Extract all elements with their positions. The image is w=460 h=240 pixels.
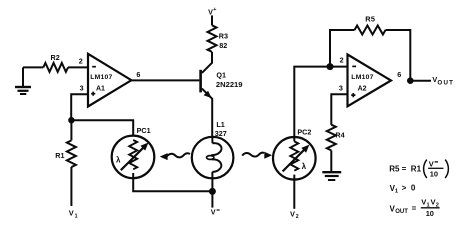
svg-text:A2: A2 <box>358 85 367 92</box>
svg-text:LM107: LM107 <box>351 74 373 81</box>
wire node to PC1 top <box>71 120 133 140</box>
svg-text:V: V <box>211 207 216 216</box>
svg-text:10: 10 <box>430 170 438 179</box>
node junction R1 / PC1 / A1 pin3 <box>68 117 74 123</box>
wire lamp bottom to V- <box>211 178 213 207</box>
op-amp U2 A2 <box>339 55 401 107</box>
svg-text:2: 2 <box>340 56 344 65</box>
svg-text:V: V <box>69 209 74 218</box>
equations <box>389 159 448 217</box>
wire node to R1 <box>70 120 72 140</box>
svg-text:327: 327 <box>215 129 227 138</box>
svg-text:OUT: OUT <box>437 79 454 86</box>
svg-text:λ: λ <box>302 162 307 171</box>
svg-text:R1: R1 <box>55 151 64 160</box>
resistor R4 <box>327 125 336 151</box>
wire R5 right leg to output <box>386 30 411 81</box>
svg-text:A1: A1 <box>96 86 105 93</box>
eq1: R5 = R1 (V-/10) <box>389 159 448 178</box>
wire PC2 top to A2 pin 2 <box>294 67 330 142</box>
wire PC1 bottom to V- node <box>133 173 210 191</box>
node V1 label <box>69 209 78 220</box>
resistor R5 <box>355 26 386 35</box>
lamp L1 <box>192 120 234 178</box>
wire A2 pin 3 to R4 <box>331 94 347 125</box>
node VOUT label <box>432 75 454 86</box>
svg-text:6: 6 <box>397 70 401 79</box>
wire A1 output to Q1 base <box>131 79 199 81</box>
svg-text:=: = <box>412 204 417 213</box>
node junction A2 output <box>407 77 414 84</box>
node V+ label <box>208 7 216 17</box>
svg-text:2N2219: 2N2219 <box>216 80 243 89</box>
wire R1 to V1 <box>70 167 72 206</box>
resistor R3 <box>208 25 217 52</box>
svg-text:R5: R5 <box>365 14 375 23</box>
wire V+ to R3 <box>211 15 213 25</box>
svg-text:3: 3 <box>80 84 84 93</box>
svg-text:PC2: PC2 <box>297 127 311 136</box>
svg-text:R3: R3 <box>219 31 228 40</box>
op-amp U1 A1 <box>79 54 141 107</box>
svg-text:R5: R5 <box>389 165 400 174</box>
wire PC2 bottom to V2 <box>293 175 295 209</box>
photocell PC2 <box>273 127 316 179</box>
wire output to VOUT <box>410 80 431 82</box>
svg-text:LM107: LM107 <box>90 74 112 81</box>
node junction lamp / PC1 / V- <box>209 188 216 195</box>
svg-text:10: 10 <box>426 209 434 218</box>
svg-text:R1: R1 <box>411 165 422 174</box>
node V2 label <box>290 209 299 220</box>
svg-text:3: 3 <box>339 84 343 93</box>
svg-text:1: 1 <box>75 213 78 219</box>
light arrow lamp to PC2 <box>242 152 272 159</box>
eq3: VOUT = V1V2/10 <box>390 198 440 218</box>
svg-text:82: 82 <box>219 41 227 50</box>
svg-text:λ: λ <box>116 156 121 165</box>
node V- label <box>211 207 220 216</box>
svg-text:>: > <box>402 184 407 193</box>
resistor R2 <box>43 63 68 72</box>
wire junction to A2 pin 2 <box>330 66 348 68</box>
wire A1 pin 3 <box>71 94 88 119</box>
svg-text:PC1: PC1 <box>137 126 151 135</box>
svg-text:2: 2 <box>296 214 299 220</box>
svg-text:V: V <box>290 209 295 218</box>
svg-text:Q1: Q1 <box>216 70 226 79</box>
svg-text:V: V <box>429 159 434 168</box>
svg-text:+: + <box>213 7 216 13</box>
photocell PC1 <box>112 126 155 178</box>
transistor Q1 2N2219 <box>199 52 242 137</box>
wire R4 to ground <box>330 150 332 171</box>
wire R5 feedback left leg <box>330 30 355 67</box>
svg-text:R2: R2 <box>51 53 60 62</box>
svg-text:R4: R4 <box>335 130 344 139</box>
wire ground to R2 <box>23 66 43 68</box>
resistor R1 <box>67 140 76 167</box>
node junction A2 pin2 / R5 / PC2 <box>327 63 334 70</box>
light arrow lamp to PC1 <box>160 153 190 160</box>
svg-text:6: 6 <box>136 70 140 79</box>
svg-text:0: 0 <box>411 184 416 193</box>
ground (left, input of R2) <box>15 67 31 94</box>
svg-text:2: 2 <box>79 56 83 65</box>
wire R2 to A1 pin 2 <box>68 66 88 68</box>
svg-text:OUT: OUT <box>395 209 408 215</box>
eq2: V1 > 0 <box>390 184 416 195</box>
ground (under R4) <box>322 172 341 180</box>
svg-text:=: = <box>402 165 407 174</box>
